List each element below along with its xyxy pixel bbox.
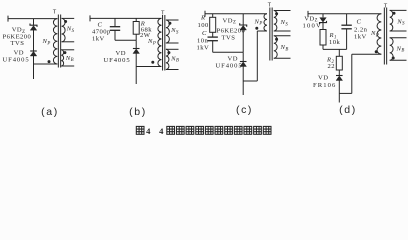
wire: top rail (d) [308,13,381,15]
wire: drain vertical to primary (c) [256,31,258,81]
wire: clamp junction (d) [323,48,347,50]
wire: cap branch lower (d) [346,29,348,50]
wire: R branch upper (b) [135,18,137,21]
Ns top lead (c) [274,10,291,12]
wire: junction to R2 (d) [338,49,340,56]
wire: cap branch lower (b) [114,30,116,40]
primary winding Np (d) [377,14,381,54]
primary polarity dot (c) [255,27,258,30]
transformer T core (d) [383,8,385,65]
svg-text:R: R [200,14,205,21]
svg-text:100: 100 [198,22,209,29]
wire: cap branch upper (b) [114,18,116,26]
svg-text:1kV: 1kV [197,45,210,52]
wire: TVS branch upper (c) [242,14,244,25]
Nb polarity dot (c) [275,38,278,41]
diode VD UF4005 (b) [133,48,140,50]
primary polarity dot (a) [48,60,51,63]
primary winding Np (c) [264,14,267,31]
primary polarity dot (b) [151,61,154,64]
Ns top lead (a) [62,17,75,19]
wire: drain stub down (d) [338,93,340,102]
Ns polarity dot (d) [393,12,396,15]
resistor R2 22 (d) [336,56,342,70]
wire: RC bottom junction (b) [115,39,136,41]
Nb bottom lead (d) [390,59,407,61]
bias winding Nb (b) [166,49,169,69]
transformer T core (c) [269,8,271,61]
svg-text:10n: 10n [197,38,208,45]
circuit (d) group [303,4,407,103]
svg-text:TVS: TVS [222,34,236,41]
Nb polarity dot (d) [392,57,395,60]
wire: cap branch upper (d) [346,14,348,25]
transformer T core (b) [162,15,164,71]
bias winding Nb (d) [390,38,393,61]
secondary winding Ns (d) [390,10,393,31]
wire: drain horizontal (d) [339,92,352,94]
wire: R1 lower (d) [322,45,324,49]
wire: junction to diode (c) [242,52,244,61]
Ns polarity dot (c) [275,12,278,15]
svg-text:VD: VD [14,50,24,57]
wire: R to C (c) [212,32,214,37]
bias winding Nb (a) [61,50,63,66]
wire: snubber junction (c) [213,51,244,53]
Nb polarity dot (a) [63,51,66,54]
svg-text:4: 4 [159,126,164,136]
wire: primary bottom lead (d) [352,53,382,55]
zener diode VDz 100V (d) [320,18,327,23]
svg-text:T: T [53,10,57,16]
svg-text:UF4005: UF4005 [104,57,131,64]
wire: TVS branch upper (a) [33,19,35,25]
wire: drain horizontal (a) [34,63,58,65]
Nb bottom lead (b) [166,69,179,71]
Ns bottom lead (b) [166,42,179,44]
Nb bottom lead (a) [61,65,74,67]
wire: primary bottom lead (c) [257,30,267,32]
wire: drain horizontal (b) [136,66,161,68]
wire: junction to diode (b) [135,40,137,48]
svg-text:1kV: 1kV [354,33,367,40]
svg-text:T: T [268,3,272,9]
wire: R branch upper (c) [212,14,214,18]
secondary winding Ns (a) [62,18,66,41]
Nb polarity dot (b) [167,51,170,54]
svg-text:(c): (c) [236,104,253,116]
resistor R 68k (b) [133,22,139,35]
svg-text:2.2n: 2.2n [354,26,368,33]
TVS diode VDz P6KE200 (c) [240,23,247,26]
svg-text:T: T [161,10,165,16]
wire: diode to drain (c) [242,67,244,82]
TVS diode VDz P6KE200 (a) [30,24,37,27]
svg-text:C: C [357,18,362,25]
svg-text:TVS: TVS [11,40,25,47]
bias winding Nb (c) [274,36,277,59]
input terminal tick (a) [7,16,9,22]
secondary winding Ns (b) [166,20,169,43]
Nb top lead (c) [274,35,291,37]
svg-text:C: C [202,30,207,37]
svg-text:(b): (b) [129,106,147,118]
wire: zener to R1 (d) [322,23,324,30]
input terminal tick (d) [307,11,309,17]
Nb top lead (d) [390,37,407,39]
wire between diodes (a) [33,30,35,51]
svg-text:UF4005: UF4005 [3,57,30,64]
wire: drain vertical (d) [351,54,353,93]
svg-text:10k: 10k [329,39,340,46]
wire: drain stub down (b) [135,67,137,85]
svg-text:VD: VD [228,55,238,62]
primary winding Np (b) [158,18,162,66]
svg-text:(d): (d) [339,104,357,116]
wire: drain horizontal (c) [243,80,257,82]
svg-text:4: 4 [146,126,151,136]
resistor R1 10k (d) [320,30,326,46]
Ns bottom lead (a) [62,41,75,43]
input terminal tick (c) [204,11,206,17]
wire: top rail (b) [90,17,162,19]
secondary winding Ns (c) [274,11,277,32]
Nb bottom lead (c) [274,57,291,59]
svg-text:22: 22 [328,63,336,70]
wire: C lower (c) [212,41,214,53]
wire: diode to drain (b) [135,54,137,67]
wire: TVS to junction (c) [242,30,244,52]
wire: top rail (c) [205,13,267,15]
Ns bottom lead (d) [390,30,407,32]
svg-text:C: C [98,21,103,28]
primary winding Np (a) [53,19,57,64]
diode VD UF4005 (a) [30,50,37,52]
Ns top lead (b) [166,19,179,21]
wire: zener branch upper (d) [322,14,324,18]
Ns polarity dot (a) [64,20,67,23]
wire: diode to drain node (a) [33,56,35,64]
wire: drain stub down (c) [242,81,244,95]
circuit (a) group [3,10,75,79]
svg-text:FR106: FR106 [313,82,336,89]
svg-text:100V: 100V [303,23,322,30]
primary polarity dot (d) [375,50,378,53]
svg-text:T: T [384,4,388,10]
wire: drain stub down (a) [33,64,35,79]
Nb top lead (a) [61,49,74,51]
svg-text:(a): (a) [41,106,59,118]
wire: top rail (a) [8,18,57,20]
resistor R 100 (c) [210,17,216,32]
Ns polarity dot (b) [168,22,171,25]
Ns top lead (d) [390,9,407,11]
svg-text:UF4005: UF4005 [216,63,243,70]
svg-text:1kV: 1kV [92,35,105,42]
svg-text:VD: VD [318,75,328,82]
svg-text:VD: VD [116,50,126,57]
circuit (c) group [197,3,291,95]
capacitor C 10n (c) [208,36,218,38]
input terminal tick (b) [89,15,91,21]
wire: R branch lower (b) [135,34,137,40]
svg-text:P6KE200: P6KE200 [217,27,246,34]
circuit (b) group [90,10,179,84]
Ns bottom lead (c) [274,30,291,32]
wire: diode to drain (d) [338,81,340,94]
wire: R2 to diode (d) [338,70,340,75]
Nb top lead (b) [166,48,179,50]
capacitor C 4700p (b) [110,26,120,28]
transformer T core (a) [57,15,59,68]
caption: figure 4 - four passive drain clamp protection circuits (CJK glyph blocks) [136,126,271,136]
capacitor C 2.2n (d) [341,24,351,26]
diode VD UF4005 (c) [240,61,247,63]
diode VD FR106 (d) [336,75,343,77]
